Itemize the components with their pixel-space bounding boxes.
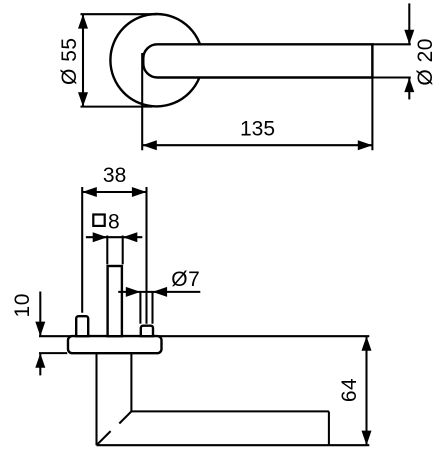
bend line inner — [119, 411, 131, 423]
dim sq8: right extension — [122, 236, 124, 265]
screw O7 right line — [151, 292, 153, 324]
dim O7: arrow left (right side) — [153, 287, 168, 297]
screw O7 left line — [139, 292, 141, 324]
dim O20: arrow down — [404, 30, 414, 44]
dim 64: arrow down — [362, 431, 372, 446]
rose plate (side) — [68, 336, 162, 353]
left fixing screw post — [76, 316, 88, 336]
dim O20: extension of bar bottom line — [372, 76, 410, 78]
dim 38: left extension — [81, 187, 83, 313]
bend line outer — [97, 431, 111, 445]
dim 135: arrow left — [142, 140, 157, 150]
handle neck left edge — [95, 353, 97, 445]
handle neck right edge — [130, 353, 132, 411]
door face line — [39, 335, 369, 337]
dim sq8: arrow left (right side) — [123, 232, 138, 242]
dim sq8: arrow right (left side) — [93, 232, 108, 242]
dim O20: lower stem — [408, 78, 410, 100]
dim sq8: left extension — [106, 236, 108, 265]
dim O55: extension line bottom — [81, 106, 153, 108]
svg-text:Ø 55: Ø 55 — [58, 37, 81, 85]
dim 38: dimension line — [82, 191, 146, 193]
dim sq8: square symbol — [93, 215, 104, 226]
svg-text:64: 64 — [338, 378, 361, 402]
dim O55: arrow down — [78, 92, 88, 106]
dim O20: extension of bar top line — [372, 43, 410, 45]
dim 10: arrow up — [35, 353, 45, 368]
dim O20: arrow up — [404, 78, 414, 92]
dim 10: arrow down — [35, 322, 45, 337]
lever bar (stadium, covers circle) — [143, 44, 372, 77]
dim 135: dimension line — [142, 144, 372, 146]
dim O20: label — [414, 38, 437, 86]
dim 38: arrow left — [82, 187, 97, 197]
rose bottom extension (left) — [39, 352, 67, 354]
rose circle O55 — [110, 14, 202, 106]
dim 64: dimension line — [365, 336, 367, 445]
grip bottom line — [97, 444, 329, 446]
dim 135: left extension line — [141, 53, 143, 150]
dim 10: label — [11, 293, 34, 317]
dim 64: bottom extension — [329, 444, 369, 446]
grip right end — [328, 411, 330, 445]
dim 64: arrow up — [362, 336, 372, 351]
svg-text:8: 8 — [108, 211, 120, 234]
dim O55: arrow up — [78, 14, 88, 28]
dim O55: label — [58, 37, 81, 85]
svg-text:Ø 20: Ø 20 — [414, 38, 437, 86]
dim 38: right extension — [145, 187, 147, 324]
dim O55: dimension line — [82, 14, 84, 106]
dim O7: dimension line — [118, 291, 200, 293]
dim 38: arrow right — [132, 187, 147, 197]
dim 10: upper stem — [39, 292, 41, 337]
svg-text:135: 135 — [240, 118, 275, 141]
grip top line — [131, 410, 329, 412]
dim O20: upper stem — [408, 3, 410, 44]
dim O7: arrow right (left side) — [126, 287, 141, 297]
svg-text:10: 10 — [11, 293, 34, 317]
dim sq8: dimension line — [86, 236, 142, 238]
dim 135: arrow right — [358, 140, 373, 150]
dim 64: label — [338, 378, 361, 402]
dim 10: lower stem — [39, 353, 41, 375]
spindle (square 8) — [108, 266, 122, 336]
dim O55: extension line top — [81, 13, 158, 15]
svg-text:38: 38 — [103, 164, 126, 187]
svg-text:Ø7: Ø7 — [171, 268, 200, 291]
right screw head — [141, 326, 153, 337]
dim 135: right extension line (bar end) — [371, 44, 373, 150]
